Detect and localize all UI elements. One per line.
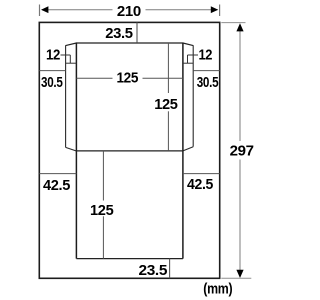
template body right edge [182,43,184,259]
svg-text:42.5: 42.5 [187,177,213,193]
dimension 30.5 left line [39,70,65,72]
svg-text:(mm): (mm) [203,282,233,298]
svg-text:30.5: 30.5 [41,75,63,91]
dimension 125 horizontal line [76,77,182,79]
dimension 12 right leader [188,55,199,63]
svg-text:23.5: 23.5 [105,26,133,42]
dimension 210 left tick [39,5,41,17]
dimension 297 top extension line [221,22,245,24]
dimension 12 right line [183,62,193,64]
outer rect A4 sheet 210x297 [39,22,219,278]
left flap outer edge [65,45,67,147]
svg-text:125: 125 [154,97,178,113]
right flap outer edge [192,45,194,146]
dimension 30.5 right line [193,70,220,72]
dimension 297 line [239,25,241,277]
svg-text:30.5: 30.5 [197,75,219,91]
dimension 23.5 bottom tick [169,259,171,279]
dimension 42.5 right line [183,173,220,175]
dimension 210 left arrowhead [41,6,48,13]
svg-text:297: 297 [230,144,254,160]
template top edge [76,42,183,44]
dimension 297 bottom arrowhead [236,270,243,278]
svg-text:42.5: 42.5 [43,178,70,194]
template bottom edge [76,258,182,260]
svg-text:210: 210 [117,4,141,20]
dimension 210 right arrowhead [211,6,218,13]
left flap bottom slant [66,147,77,151]
dimension 125 vertical upper line [167,43,169,151]
dimension 12 left leader [61,55,71,63]
template middle fold edge [76,150,182,152]
svg-text:12: 12 [46,48,60,64]
dimension 210 right tick [219,5,221,17]
dimension 23.5 top tick [136,22,138,42]
dimension 12 left line [66,62,77,64]
right flap bottom slant [183,147,193,151]
svg-text:12: 12 [198,48,212,64]
svg-text:125: 125 [116,70,138,86]
svg-text:23.5: 23.5 [139,263,168,279]
template top-right bevel [183,43,193,46]
template body left edge [75,43,77,259]
dimension 125 vertical lower line [102,151,104,259]
template top-left bevel [66,43,77,46]
svg-text:125: 125 [90,203,114,219]
dimension 42.5 left line [39,173,76,175]
dimension 297 top arrowhead [236,23,243,31]
dimension 297 bottom extension line [221,277,251,279]
dimension 210 line [42,9,218,11]
